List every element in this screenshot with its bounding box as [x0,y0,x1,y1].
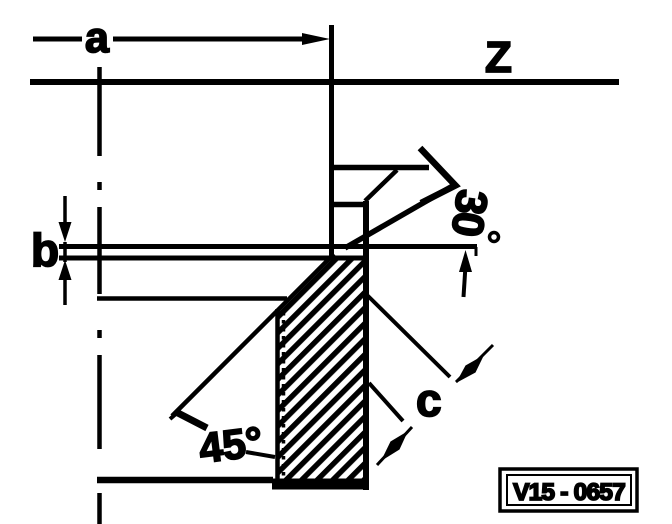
svg-text:30: 30 [442,187,497,239]
svg-text:Z: Z [485,33,512,82]
svg-text:45°: 45° [196,418,265,472]
svg-text:a: a [85,14,110,62]
svg-text:b: b [31,224,59,276]
svg-text:c: c [416,374,442,426]
svg-text:V15 - 0657: V15 - 0657 [513,479,625,506]
